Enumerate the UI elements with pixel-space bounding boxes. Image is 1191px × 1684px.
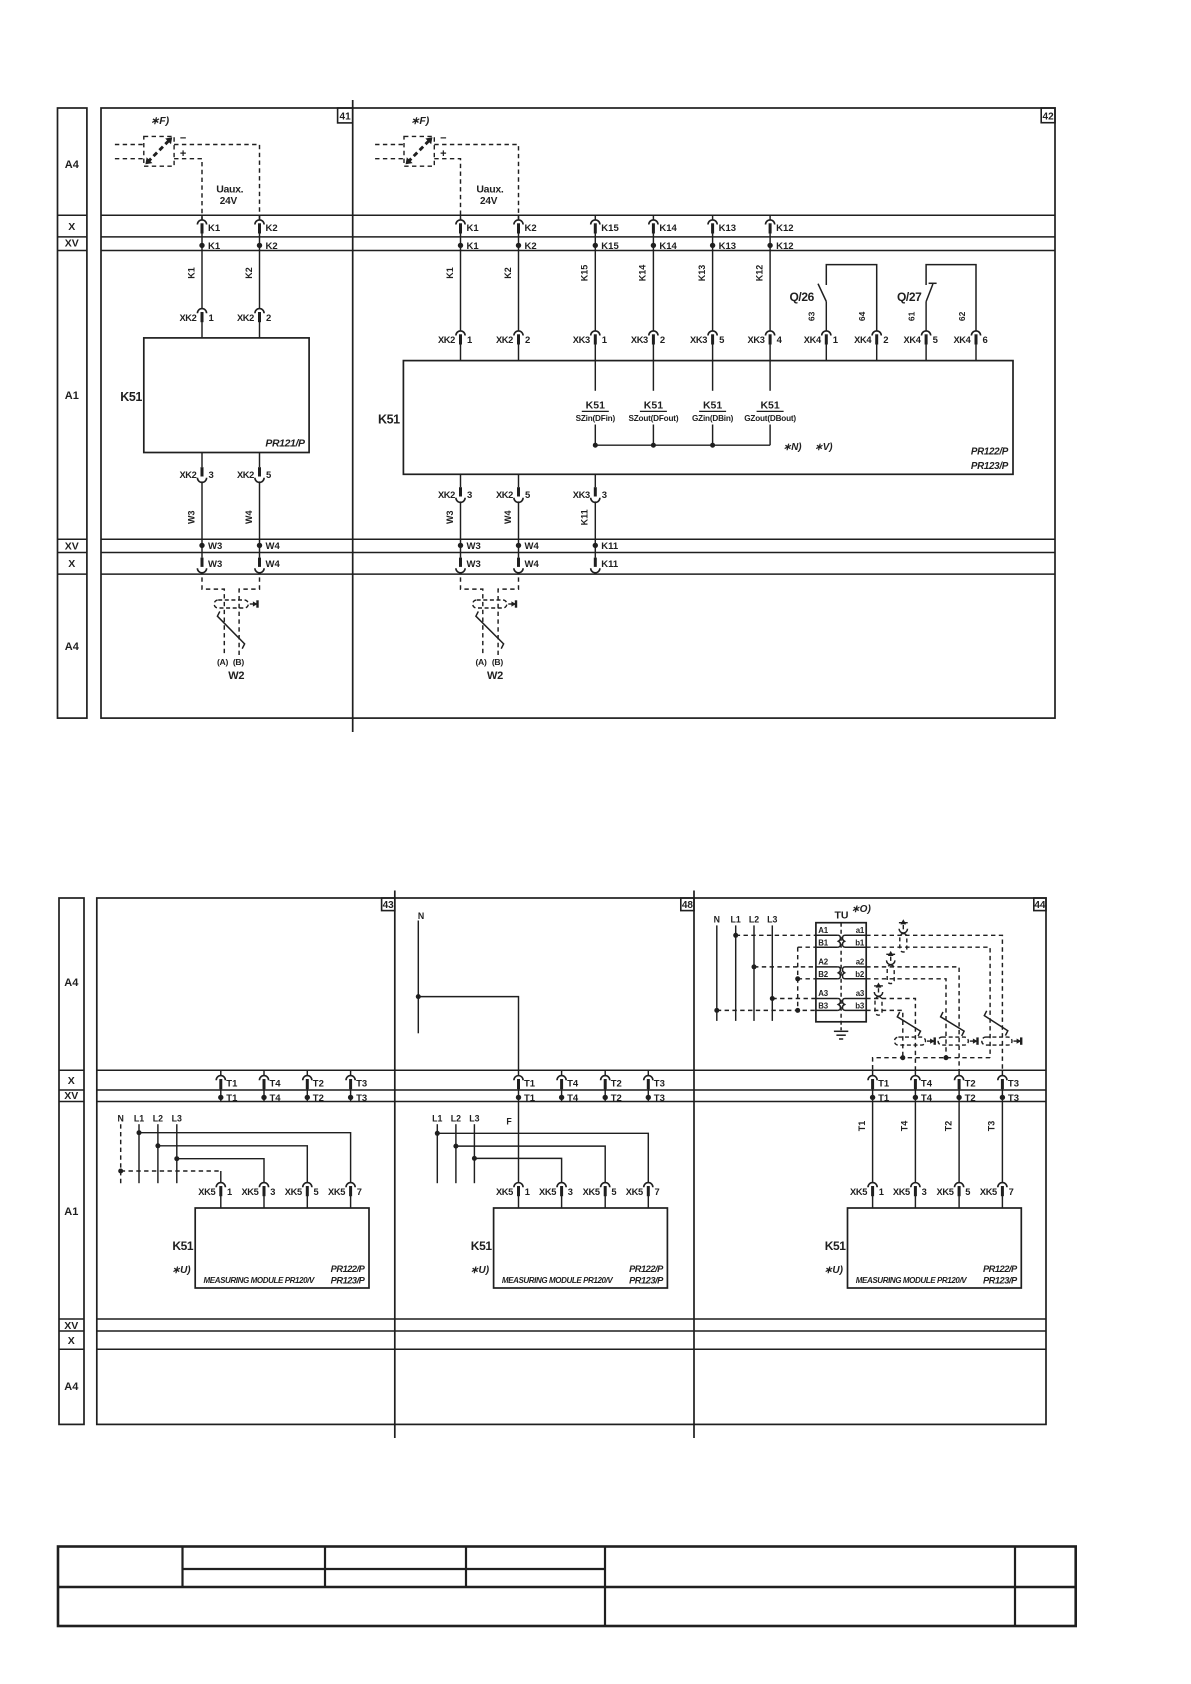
wire K12 from X row down (frame 42) <box>769 232 771 331</box>
svg-text:K1: K1 <box>208 241 221 252</box>
svg-text:X: X <box>68 221 75 233</box>
svg-text:XV: XV <box>64 1090 78 1102</box>
dashed wire L3 to TU A3 <box>772 998 816 1000</box>
svg-text:L3: L3 <box>469 1114 479 1124</box>
terminal X pin T2 (frame 48) <box>604 1070 606 1076</box>
connector pin XK2:2 (frame 42) <box>514 331 523 336</box>
svg-text:a3: a3 <box>856 989 865 998</box>
svg-text:5: 5 <box>719 335 725 346</box>
svg-text:T4: T4 <box>921 1093 933 1104</box>
svg-text:1: 1 <box>209 313 215 324</box>
terminal XV tap K13 (frame 42) <box>710 243 715 248</box>
svg-text:+: + <box>440 148 446 160</box>
svg-text:24V: 24V <box>220 196 238 207</box>
terminal XV tap K2 (frame 42) <box>516 243 521 248</box>
terminal X pin T3 (frame 44) <box>1001 1070 1003 1076</box>
svg-text:B1: B1 <box>818 938 828 947</box>
voltage transformer TU box <box>816 923 866 1022</box>
svg-text:2: 2 <box>883 335 888 346</box>
isolating blade on a3/b3 pair <box>897 1012 920 1036</box>
dashed wire W4 leg to W2 (frame 42) <box>498 577 518 656</box>
wire XK5:7 into module (frame 44) <box>1001 1195 1003 1208</box>
svg-text:(B): (B) <box>233 657 244 667</box>
K51 zone input SZin(DFin) <box>594 361 596 391</box>
terminal X pin T1 (frame 43) <box>220 1070 222 1076</box>
svg-text:a2: a2 <box>856 958 865 967</box>
wire W4 down to XV (frame 41) <box>259 481 261 557</box>
wire XK5:7 into module (frame 43) <box>350 1195 352 1208</box>
terminal XV tap K14 (frame 42) <box>651 243 656 248</box>
svg-text:1: 1 <box>602 335 608 346</box>
terminal X pin W4 (frame 41) <box>258 558 261 567</box>
svg-text:A2: A2 <box>818 958 828 967</box>
terminal XV tap T1 (frame 43) <box>220 1088 222 1101</box>
svg-text:K14: K14 <box>659 223 677 234</box>
wire K1 from X row to XK2 (frame 41) <box>201 232 203 308</box>
dashed common bus to T1 (frame 44) <box>873 1058 991 1071</box>
svg-text:7: 7 <box>357 1187 362 1197</box>
terminal X pin K15 (frame 42) <box>594 215 596 220</box>
wire XK5:3 into module (frame 48) <box>561 1195 563 1208</box>
svg-text:T2: T2 <box>611 1078 622 1089</box>
wire rail x=455.9 to XK5 column (frame 48) <box>456 1146 605 1183</box>
wire K2 from X row to XK2 (frame 41) <box>259 232 261 308</box>
svg-text:A3: A3 <box>818 989 828 998</box>
wire N junction to T1 (frame 48) <box>418 997 518 1071</box>
svg-text:PR123/P: PR123/P <box>629 1276 664 1286</box>
svg-text:41: 41 <box>340 112 352 123</box>
dashed wire TU a2 to column x=959.1 <box>866 967 959 1070</box>
wire XK5:7 into module (frame 48) <box>647 1195 649 1208</box>
wire: supply plus to K1 (frame 41) <box>174 159 202 220</box>
svg-text:XK5: XK5 <box>626 1187 643 1197</box>
svg-text:K2: K2 <box>266 223 278 234</box>
terminal X pin T3 (frame 43) <box>350 1070 352 1076</box>
svg-text:T4: T4 <box>921 1078 933 1089</box>
svg-text:A1: A1 <box>818 926 828 935</box>
terminal XV tap T2 (frame 44) <box>958 1088 960 1101</box>
cable plug capsule on b1/a1 <box>982 1037 1012 1045</box>
svg-text:5: 5 <box>525 490 531 501</box>
terminal XV tap T4 (frame 43) <box>263 1088 265 1101</box>
moving contact blade W2 (frame 42) <box>476 611 504 648</box>
svg-text:XK5: XK5 <box>893 1187 910 1197</box>
connector pin XK4:2 (frame 42) <box>872 331 881 336</box>
terminal XV tap K11 (frame 42) <box>593 543 598 548</box>
svg-text:K2: K2 <box>244 267 254 279</box>
svg-text:K2: K2 <box>503 267 513 279</box>
divider between frame 41 and frame 42 <box>352 100 354 732</box>
svg-text:PR123/P: PR123/P <box>331 1276 366 1286</box>
wire K51 to XK3:3 (frame 42) <box>594 474 596 487</box>
terminal X pin T1 (frame 44) <box>872 1070 874 1076</box>
svg-text:XK2: XK2 <box>438 490 455 500</box>
svg-text:∗U): ∗U) <box>172 1265 192 1276</box>
wire rail x=437.3 to XK5 column (frame 48) <box>437 1133 648 1183</box>
svg-text:T2: T2 <box>313 1078 324 1089</box>
svg-text:62: 62 <box>957 311 967 321</box>
svg-text:W4: W4 <box>525 559 540 570</box>
svg-text:T1: T1 <box>524 1093 536 1104</box>
svg-text:∗N): ∗N) <box>783 442 802 453</box>
terminal X pin T2 (frame 43) <box>306 1070 308 1076</box>
svg-text:K14: K14 <box>638 265 648 282</box>
auxiliary contact Q/27 (break contact) <box>926 265 976 331</box>
svg-text:W3: W3 <box>186 511 196 525</box>
terminal XV tap W3 (frame 42) <box>458 543 463 548</box>
svg-text:XK5: XK5 <box>328 1187 345 1197</box>
terminal X pin T2 (frame 44) <box>958 1070 960 1076</box>
connector pin XK5:5 (frame 44) <box>955 1183 964 1188</box>
connector pin XK3:3 (frame 42) <box>594 487 597 496</box>
svg-text:K15: K15 <box>601 241 619 252</box>
wire XK3:4 into K51 (frame 42) <box>769 344 771 361</box>
svg-text:W3: W3 <box>467 559 481 570</box>
svg-text:W2: W2 <box>228 670 244 682</box>
wire XK5:3 into module (frame 44) <box>914 1195 916 1208</box>
connector pin XK4:6 (frame 42) <box>971 331 980 336</box>
svg-text:K51: K51 <box>378 413 400 427</box>
svg-text:43: 43 <box>383 900 395 911</box>
connector pin XK2:5 (frame 42) <box>517 487 520 496</box>
terminal XV tap T2 (frame 43) <box>306 1088 308 1101</box>
svg-text:XK3: XK3 <box>748 335 765 345</box>
svg-text:44: 44 <box>1034 900 1046 911</box>
svg-text:K51: K51 <box>825 1239 847 1253</box>
terminal XV tap K12 (frame 42) <box>767 243 772 248</box>
frame number box 44 <box>1034 898 1046 911</box>
svg-text:(B): (B) <box>492 657 503 667</box>
svg-text:1: 1 <box>227 1187 232 1197</box>
connector pin XK3:4 (frame 42) <box>766 331 775 336</box>
svg-text:A1: A1 <box>65 390 79 402</box>
terminal XV tap K15 (frame 42) <box>593 243 598 248</box>
svg-text:K14: K14 <box>659 241 677 252</box>
svg-text:3: 3 <box>922 1187 927 1197</box>
terminal X pin K1 (frame 41) <box>201 215 203 220</box>
wire K1 from X row down (frame 42) <box>460 232 462 331</box>
top section: row label sidebar <box>58 108 87 718</box>
svg-text:XK5: XK5 <box>980 1187 997 1197</box>
terminal XV tap T4 (frame 48) <box>561 1088 563 1101</box>
svg-text:X: X <box>68 1335 75 1347</box>
wire XK5:5 into module (frame 43) <box>306 1195 308 1208</box>
wire XK2:2 into K51 (frame 42) <box>518 344 520 361</box>
svg-text:PR123/P: PR123/P <box>983 1276 1018 1286</box>
svg-text:XK3: XK3 <box>573 490 590 500</box>
wire XK3:5 into K51 (frame 42) <box>712 344 714 361</box>
wire XK2:1 into K51 (frame 41) <box>201 321 203 338</box>
svg-text:Uaux.: Uaux. <box>216 183 243 195</box>
wire XK5:1 into module (frame 48) <box>518 1195 520 1208</box>
dashed wire TU a3 to column x=915.4 <box>866 999 915 1071</box>
svg-text:7: 7 <box>655 1187 660 1197</box>
measuring module K51 PR120/V box (frame 48) <box>494 1208 668 1288</box>
wire T3 from XV to XK5 (frame 44) <box>1001 1102 1003 1183</box>
svg-text:4: 4 <box>777 335 783 346</box>
svg-text:T1: T1 <box>524 1078 536 1089</box>
svg-text:T1: T1 <box>878 1093 890 1104</box>
connector pin XK2:1 (frame 42) <box>456 331 465 336</box>
svg-text:K12: K12 <box>776 241 793 252</box>
wire: supply plus to K1 (frame 42) <box>434 159 460 220</box>
svg-text:MEASURING MODULE PR120/V: MEASURING MODULE PR120/V <box>856 1276 967 1285</box>
svg-text:5: 5 <box>611 1187 616 1197</box>
wire XK4:2 into K51 (frame 42) <box>876 344 878 361</box>
wire W4 down to XV (frame 42) <box>518 501 520 557</box>
terminal X pin T4 (frame 48) <box>561 1070 563 1076</box>
svg-text:W4: W4 <box>266 541 281 552</box>
terminal X pin W4 (frame 42) <box>517 558 520 567</box>
connector pin XK5:7 (frame 48) <box>644 1183 653 1188</box>
wire K51 to XK2:5 (frame 41) <box>259 453 261 468</box>
dashed wire W3 leg to W2 (frame 41) <box>202 577 224 656</box>
terminal XV tap W4 (frame 41) <box>257 543 262 548</box>
svg-text:7: 7 <box>1009 1187 1014 1197</box>
svg-text:XK4: XK4 <box>804 335 822 345</box>
wire W3 down to XV (frame 42) <box>460 501 462 557</box>
wire K14 from X row down (frame 42) <box>652 232 654 331</box>
svg-text:2: 2 <box>660 335 665 346</box>
svg-text:K51: K51 <box>586 399 605 411</box>
svg-text:−: − <box>180 133 186 145</box>
svg-text:(A): (A) <box>475 657 486 667</box>
svg-text:1: 1 <box>879 1187 884 1197</box>
terminal XV tap K2 (frame 41) <box>257 243 262 248</box>
wire K51 to XK2:3 (frame 41) <box>201 453 203 468</box>
svg-text:XK2: XK2 <box>237 313 254 323</box>
svg-text:T3: T3 <box>987 1121 997 1132</box>
terminal X pin K2 (frame 42) <box>518 215 520 220</box>
wire XK5:3 into module (frame 43) <box>263 1195 265 1208</box>
svg-text:XK2: XK2 <box>438 335 455 345</box>
svg-text:T2: T2 <box>965 1093 976 1104</box>
svg-text:SZout(DFout): SZout(DFout) <box>628 414 678 423</box>
wire W3 down to XV (frame 41) <box>201 481 203 557</box>
svg-text:XK5: XK5 <box>937 1187 954 1197</box>
dashed wire W4 leg to W2 (frame 41) <box>239 577 259 656</box>
dashed stubs left of supply box (frame 41) <box>115 144 144 146</box>
svg-text:A4: A4 <box>65 159 80 171</box>
svg-text:42: 42 <box>1043 112 1055 123</box>
wire XK2:2 into K51 (frame 41) <box>259 321 261 338</box>
K51 zone input SZout(DFout) <box>652 361 654 391</box>
wire K2 from X row down (frame 42) <box>518 232 520 331</box>
measuring module K51 PR120/V box (frame 44) <box>848 1208 1022 1288</box>
terminal XV tap T1 (frame 48) <box>518 1088 520 1101</box>
isolating blade on a1/b1 pair <box>984 1011 1008 1036</box>
svg-text:K2: K2 <box>525 223 537 234</box>
terminal XV tap T4 (frame 44) <box>914 1088 916 1101</box>
wire T2 from XV to XK5 (frame 44) <box>958 1102 960 1183</box>
svg-text:XK4: XK4 <box>854 335 872 345</box>
wire XK3:2 into K51 (frame 42) <box>652 344 654 361</box>
svg-text:T1: T1 <box>857 1121 867 1132</box>
dashed wire N to XK5:1 (frame 43) <box>121 1170 221 1172</box>
svg-text:XK3: XK3 <box>631 335 648 345</box>
svg-text:L3: L3 <box>172 1114 182 1124</box>
svg-text:K51: K51 <box>172 1239 194 1253</box>
terminal X pin T1 (frame 48) <box>518 1070 520 1076</box>
svg-text:K11: K11 <box>580 509 590 525</box>
svg-text:3: 3 <box>602 490 607 501</box>
protection unit K51 PR122/P PR123/P (frame 42) <box>403 361 1013 475</box>
svg-text:X: X <box>68 558 75 570</box>
wire XK4:6 into K51 (frame 42) <box>975 344 977 361</box>
svg-text:64: 64 <box>857 311 867 321</box>
svg-text:F: F <box>506 1116 512 1126</box>
svg-text:Q/26: Q/26 <box>790 290 815 304</box>
svg-text:A4: A4 <box>64 977 79 989</box>
svg-text:K13: K13 <box>697 265 707 282</box>
svg-text:K15: K15 <box>601 223 619 234</box>
svg-text:B3: B3 <box>818 1002 828 1011</box>
svg-text:W3: W3 <box>445 511 455 525</box>
dashed bus joining B1 B2 B3 <box>797 947 799 1010</box>
terminal X pin K12 (frame 42) <box>769 215 771 220</box>
svg-text:XK4: XK4 <box>953 335 971 345</box>
svg-text:3: 3 <box>467 490 472 501</box>
svg-text:Uaux.: Uaux. <box>476 183 503 195</box>
dashed wire L2 to TU A2 <box>754 966 816 968</box>
svg-text:XV: XV <box>64 1320 78 1332</box>
TU ground symbol <box>840 1022 842 1032</box>
svg-text:K1: K1 <box>445 267 455 279</box>
connector pin XK2:5 (frame 41) <box>258 467 261 476</box>
svg-text:XK5: XK5 <box>198 1187 215 1197</box>
svg-text:T2: T2 <box>965 1078 976 1089</box>
svg-text:XK4: XK4 <box>904 335 922 345</box>
svg-text:48: 48 <box>682 900 694 911</box>
auxiliary contact Q/26 <box>826 265 876 331</box>
cable plug capsule on b3/a3 <box>894 1037 925 1045</box>
svg-text:T4: T4 <box>270 1093 282 1104</box>
svg-text:T2: T2 <box>943 1121 953 1132</box>
frame number box 42 <box>1041 108 1055 123</box>
svg-text:XK5: XK5 <box>241 1187 258 1197</box>
svg-text:3: 3 <box>270 1187 275 1197</box>
wire T4 from XV to XK5 (frame 44) <box>914 1102 916 1183</box>
divider between frame 43 and frame 48 <box>394 891 396 1439</box>
connector pin XK4:1 (frame 42) <box>822 331 831 336</box>
terminal XV tap W3 (frame 41) <box>199 543 204 548</box>
svg-text:b3: b3 <box>855 1002 865 1011</box>
svg-text:L2: L2 <box>451 1114 461 1124</box>
svg-text:∗U): ∗U) <box>470 1265 490 1276</box>
terminal X pin T4 (frame 44) <box>914 1070 916 1076</box>
terminal X pin K11 (frame 42) <box>594 558 597 567</box>
frame number box 43 <box>382 898 395 911</box>
svg-text:3: 3 <box>209 470 214 481</box>
svg-text:T1: T1 <box>226 1093 238 1104</box>
svg-text:a1: a1 <box>856 926 865 935</box>
wire: supply minus to K2 (frame 41) <box>174 145 259 220</box>
connector pin XK3:2 (frame 42) <box>649 331 658 336</box>
terminal XV tap K1 (frame 41) <box>199 243 204 248</box>
svg-text:XK3: XK3 <box>573 335 590 345</box>
svg-text:K12: K12 <box>754 265 764 282</box>
measuring module K51 PR120/V box (frame 43) <box>195 1208 369 1288</box>
svg-text:K11: K11 <box>601 559 619 570</box>
svg-text:A4: A4 <box>65 641 80 653</box>
svg-text:2: 2 <box>266 313 271 324</box>
svg-text:K51: K51 <box>471 1239 493 1253</box>
connector pin XK2:3 (frame 41) <box>201 467 204 476</box>
terminal XV tap K1 (frame 42) <box>458 243 463 248</box>
connector pin XK2:2 (frame 41) <box>255 309 264 314</box>
svg-text:b1: b1 <box>855 938 865 947</box>
dashed wire W3 leg to W2 (frame 42) <box>461 577 483 656</box>
svg-text:K1: K1 <box>467 241 480 252</box>
cable plug capsule W2 (frame 42) <box>473 600 507 608</box>
svg-text:PR122/P: PR122/P <box>331 1264 366 1274</box>
connector pin XK2:1 (frame 41) <box>197 309 206 314</box>
wire K13 from X row down (frame 42) <box>712 232 714 331</box>
terminal X pin W3 (frame 42) <box>459 558 462 567</box>
dashed wire TU b2 to column x=946.0 <box>866 979 946 1058</box>
svg-text:TU: TU <box>835 909 849 921</box>
svg-text:K15: K15 <box>580 265 590 282</box>
svg-text:L1: L1 <box>134 1114 144 1124</box>
cable plug capsule on b2/a2 <box>938 1037 968 1045</box>
svg-text:T2: T2 <box>313 1093 324 1104</box>
wire rail x=176.8 to XK5 column (frame 43) <box>177 1159 264 1183</box>
terminal XV tap T3 (frame 48) <box>647 1088 649 1101</box>
svg-text:1: 1 <box>467 335 473 346</box>
connector pin XK3:5 (frame 42) <box>708 331 717 336</box>
terminal XV tap T2 (frame 48) <box>604 1088 606 1101</box>
svg-text:PR122/P: PR122/P <box>629 1264 664 1274</box>
terminal XV tap T1 (frame 44) <box>872 1088 874 1101</box>
zone selectivity common bus inside K51 <box>595 444 770 446</box>
terminal X pin K13 (frame 42) <box>712 215 714 220</box>
svg-text:1: 1 <box>833 335 839 346</box>
dashed wire TU a1 to column x=1002.4 <box>866 935 1002 1070</box>
svg-text:XK5: XK5 <box>850 1187 867 1197</box>
svg-text:T4: T4 <box>900 1121 910 1132</box>
wire XK2:1 into K51 (frame 42) <box>460 344 462 361</box>
svg-text:W4: W4 <box>503 511 513 525</box>
svg-text:PR122/P: PR122/P <box>983 1264 1018 1274</box>
isolating blade on a2/b2 pair <box>941 1012 965 1036</box>
withdrawable plug connector on a3/b3 <box>878 988 880 992</box>
svg-text:X: X <box>68 1075 75 1087</box>
svg-text:5: 5 <box>314 1187 319 1197</box>
wire XK5:1 into module (frame 43) <box>220 1195 222 1208</box>
svg-text:GZout(DBout): GZout(DBout) <box>744 414 796 423</box>
svg-text:5: 5 <box>933 335 939 346</box>
svg-text:+: + <box>180 148 186 160</box>
terminal X pin T4 (frame 43) <box>263 1070 265 1076</box>
dashed stubs left of supply box (frame 42) <box>375 144 404 146</box>
svg-text:T2: T2 <box>611 1093 622 1104</box>
connector pin XK4:5 (frame 42) <box>922 331 931 336</box>
svg-text:K2: K2 <box>266 241 278 252</box>
wire K11 down to XV (frame 42) <box>594 501 596 557</box>
svg-text:∗O): ∗O) <box>851 904 871 915</box>
svg-text:K1: K1 <box>208 223 221 234</box>
svg-text:MEASURING MODULE PR120/V: MEASURING MODULE PR120/V <box>204 1276 315 1285</box>
svg-text:XK3: XK3 <box>690 335 707 345</box>
divider between frame 48 and frame 44 <box>693 891 695 1439</box>
svg-text:T3: T3 <box>1008 1093 1019 1104</box>
wire XK5:5 into module (frame 44) <box>958 1195 960 1208</box>
svg-text:24V: 24V <box>480 196 498 207</box>
connector pin XK3:1 (frame 42) <box>591 331 600 336</box>
connector pin XK5:1 (frame 44) <box>868 1183 877 1188</box>
svg-text:N: N <box>418 911 424 921</box>
terminal X pin K1 (frame 42) <box>460 215 462 220</box>
